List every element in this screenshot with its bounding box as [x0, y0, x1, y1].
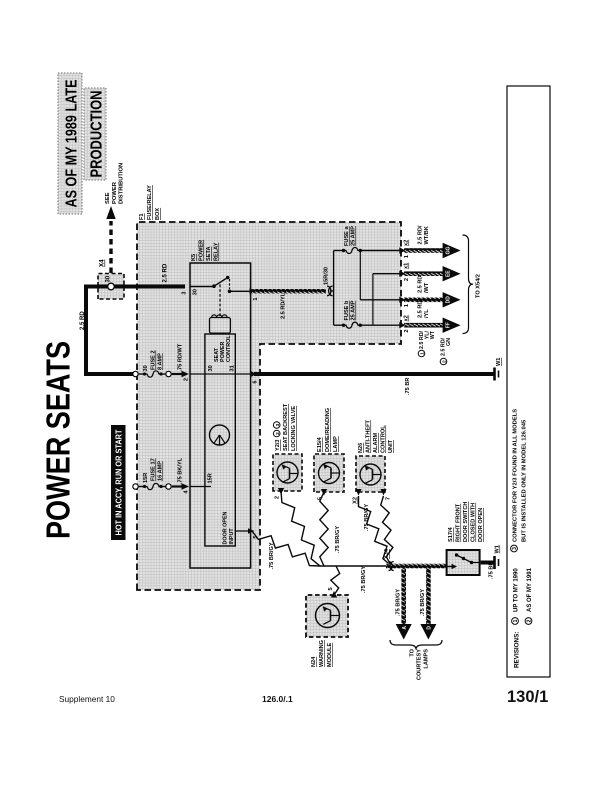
svg-text:S17/4: S17/4 — [448, 526, 454, 542]
svg-text:CONTROL: CONTROL — [381, 425, 387, 453]
svg-text:F1: F1 — [139, 213, 145, 220]
svg-text:POWER SEATS: POWER SEATS — [40, 341, 77, 539]
wire to courtesy lamp arrow D — [420, 566, 436, 640]
svg-text:AS OF MY 1991: AS OF MY 1991 — [527, 567, 533, 612]
svg-text:X2: X2 — [353, 497, 359, 504]
F1 label — [139, 185, 161, 220]
wire 2.5 RD from X4 to relay — [111, 263, 185, 286]
svg-text:PRODUCTION: PRODUCTION — [89, 91, 106, 178]
svg-text:GG: GG — [446, 247, 452, 255]
footnote 2: 2.5 RD/GN — [440, 337, 452, 364]
svg-text:x2: x2 — [404, 240, 410, 246]
fuse 17 (16 amp) feed row — [133, 457, 190, 493]
svg-text:BOX: BOX — [155, 208, 161, 220]
svg-text:2.5 RD/: 2.5 RD/ — [418, 225, 424, 244]
svg-text:1: 1 — [253, 298, 259, 301]
lamp E15/4 — [314, 454, 344, 492]
fuse 2 (8 amp) feed row — [133, 343, 190, 381]
wire 2.5 RD/YL relay output — [250, 267, 330, 319]
svg-text:2: 2 — [404, 278, 410, 281]
svg-text:.75 BR/GY: .75 BR/GY — [361, 566, 367, 593]
K5 label — [191, 240, 220, 261]
svg-text:2: 2 — [275, 496, 281, 499]
valve Y2/3 — [273, 454, 302, 491]
svg-text:3: 3 — [512, 547, 518, 550]
fuse a (25 amp) — [334, 226, 362, 254]
svg-text:FUSE/RELAY: FUSE/RELAY — [147, 185, 153, 220]
wire .75 BR/GY from E15/4 to node — [320, 492, 341, 566]
connector on 2.5 RD/YL wire — [327, 286, 334, 296]
ground W1 (left) — [495, 545, 501, 569]
svg-text:BUT IS INSTALLED ONLY IN MODEL: BUT IS INSTALLED ONLY IN MODEL 126.045 — [522, 419, 528, 542]
E15/4 terminal 5 — [318, 489, 328, 500]
ground W1 (center) — [495, 358, 503, 381]
svg-text:ANTI-THEFT: ANTI-THEFT — [366, 419, 372, 453]
door switch S17/4 — [447, 550, 480, 575]
svg-text:3: 3 — [275, 423, 281, 426]
footnote 1: 2.5 RD/YL/WT — [418, 330, 436, 357]
svg-text:N24: N24 — [311, 656, 317, 667]
wire from N26 terminal 7 to node — [381, 496, 393, 565]
title box: PRODUCTION — [84, 88, 106, 180]
node: X4 terminal circle — [108, 283, 115, 290]
output EE wire and arrow — [399, 263, 460, 293]
svg-text:.75 BR: .75 BR — [405, 378, 411, 395]
svg-text:X34: X34 — [384, 548, 390, 559]
title box: AS OF MY 1989 LATE — [58, 73, 82, 214]
svg-text:COURTESY: COURTESY — [417, 649, 423, 680]
svg-text:WARNING: WARNING — [319, 640, 325, 667]
svg-text:DOOR SWITCH: DOOR SWITCH — [463, 502, 469, 542]
svg-text:5: 5 — [328, 587, 334, 590]
output DD wire and arrow — [399, 292, 460, 318]
svg-text:AS OF MY 1989 LATE: AS OF MY 1989 LATE — [64, 79, 81, 207]
wire .75 BR from door switch to ground — [481, 562, 495, 579]
svg-text:D: D — [427, 626, 433, 630]
svg-text:FUSE b: FUSE b — [344, 300, 350, 320]
wire feed bus to fuses a and b — [333, 251, 335, 326]
svg-text:3: 3 — [182, 292, 188, 295]
wire from Y2/3 to node — [281, 491, 320, 566]
svg-text:1: 1 — [404, 304, 410, 307]
svg-text:N26: N26 — [358, 443, 364, 453]
svg-text:15R: 15R — [208, 473, 214, 483]
svg-text:8 AMP: 8 AMP — [158, 353, 164, 370]
Y2/3 terminal 2 — [275, 488, 285, 499]
footer center: 126.0/.1 — [262, 694, 293, 704]
terminal 15R inside control unit — [190, 473, 214, 486]
svg-text:UP TO MY 1990: UP TO MY 1990 — [514, 568, 520, 612]
connector X34 — [384, 548, 394, 570]
wire to courtesy lamp arrow A — [396, 566, 412, 640]
svg-text:RIGHT FRONT: RIGHT FRONT — [456, 503, 462, 542]
svg-text:MODULE: MODULE — [327, 642, 333, 667]
svg-text:2.5 RD/YL: 2.5 RD/YL — [281, 292, 287, 319]
wire .75 BR/GY from N26 X2 to node — [359, 496, 392, 566]
N24 terminal 5 — [328, 587, 337, 597]
svg-text:DISTRIBUTION: DISTRIBUTION — [119, 163, 125, 204]
svg-text:TO X54/2: TO X54/2 — [476, 274, 482, 298]
output GG wire and arrow — [399, 225, 460, 258]
svg-text:.75 BR/GY: .75 BR/GY — [269, 542, 275, 569]
wire .75 BR/GY from warning module to node — [331, 566, 367, 595]
svg-text:.75 BR/GY: .75 BR/GY — [420, 589, 426, 616]
svg-text:16 AMP: 16 AMP — [158, 461, 164, 481]
Y2/3 label — [273, 403, 297, 451]
svg-text:FUSE 17: FUSE 17 — [151, 458, 157, 481]
svg-text:LAMP: LAMP — [333, 436, 339, 452]
wire fuse a to outputs GG/DD — [360, 251, 401, 300]
svg-text:REVISIONS:: REVISIONS: — [513, 632, 520, 668]
svg-text:2: 2 — [404, 330, 410, 333]
svg-text:x1: x1 — [404, 263, 410, 269]
svg-text:DOOR OPEN: DOOR OPEN — [478, 508, 484, 542]
N26 terminals X2 and 7 — [353, 489, 392, 504]
svg-text:2.5 RD: 2.5 RD — [163, 263, 169, 282]
svg-text:7: 7 — [386, 497, 392, 500]
svg-text:A: A — [402, 626, 408, 630]
svg-text:INPUT: INPUT — [229, 528, 235, 545]
label HOT IN ACCY, RUN OR START — [111, 425, 126, 540]
svg-text:15R: 15R — [143, 473, 149, 483]
svg-text:CONNECTOR FOR Y2/3 FOUND IN AL: CONNECTOR FOR Y2/3 FOUND IN ALL MODELS — [513, 409, 519, 542]
svg-text:2.5 RD: 2.5 RD — [418, 301, 424, 318]
svg-text:.75 BR/GY: .75 BR/GY — [396, 589, 402, 616]
fuse b (25 amp) — [334, 300, 362, 328]
door open input section — [223, 511, 260, 544]
svg-text:POWER: POWER — [112, 181, 118, 204]
svg-text:DOME/READING: DOME/READING — [325, 408, 331, 452]
svg-text:SEE: SEE — [105, 192, 111, 204]
wire through control unit terminals 30/31 — [190, 365, 251, 374]
wire .75 BR to ground W1 — [250, 371, 494, 395]
svg-text:TO: TO — [410, 648, 416, 656]
wire fuse b to outputs FF/EE — [360, 274, 401, 326]
svg-text:2: 2 — [184, 378, 190, 381]
svg-text:W1: W1 — [495, 545, 501, 553]
svg-text:2: 2 — [442, 360, 447, 363]
svg-text:30: 30 — [193, 289, 199, 295]
svg-text:4: 4 — [184, 490, 190, 494]
svg-text:ALARM: ALARM — [373, 432, 379, 453]
main node wire to door switch — [320, 565, 387, 567]
S17/4 label — [448, 502, 484, 542]
svg-text:1: 1 — [420, 352, 425, 355]
svg-text:RELAY: RELAY — [214, 242, 220, 261]
svg-text:25 AMP: 25 AMP — [351, 226, 357, 246]
svg-text:1: 1 — [404, 255, 410, 258]
svg-text:DOOR OPEN: DOOR OPEN — [223, 511, 229, 544]
svg-text:x2: x2 — [404, 315, 410, 321]
svg-text:31: 31 — [230, 365, 236, 371]
svg-text:X4: X4 — [99, 259, 106, 267]
relay K5 switch contacts — [182, 276, 251, 296]
svg-text:1: 1 — [513, 619, 519, 622]
relay K5 coil — [210, 283, 231, 333]
svg-text:LOCKING VALVE: LOCKING VALVE — [291, 406, 297, 451]
svg-text:LAMPS: LAMPS — [424, 649, 430, 669]
E15/4 label — [317, 408, 339, 452]
svg-text:30: 30 — [143, 365, 149, 371]
motor symbol in control unit — [210, 425, 230, 445]
svg-text:WT: WT — [430, 330, 436, 339]
svg-text:K5: K5 — [191, 254, 197, 261]
svg-text:.75 BK/YL: .75 BK/YL — [178, 457, 184, 484]
note SEE POWER DISTRIBUTION — [105, 163, 125, 204]
svg-text:FF: FF — [446, 322, 452, 328]
wire 2.5 RD branch X4 to fuse 2 — [80, 287, 133, 375]
svg-text:6: 6 — [253, 381, 259, 384]
svg-text:2.5 RD: 2.5 RD — [80, 311, 86, 330]
svg-text:30: 30 — [106, 275, 112, 282]
N26 label — [358, 419, 394, 453]
footer left: Supplement 10 — [59, 694, 115, 704]
svg-text:EE: EE — [446, 270, 452, 277]
svg-text:15R/30: 15R/30 — [324, 267, 330, 285]
svg-text:/WT: /WT — [424, 282, 430, 293]
svg-text:SEAT BACKREST: SEAT BACKREST — [283, 403, 289, 451]
wire: dashed arrow to power distribution — [106, 206, 115, 273]
brace TO COURTESY LAMPS — [390, 640, 442, 680]
svg-text:UNIT: UNIT — [388, 439, 394, 453]
svg-text:DD: DD — [446, 296, 452, 304]
svg-text:2: 2 — [275, 432, 281, 435]
svg-text:FUSE 2: FUSE 2 — [151, 350, 157, 370]
svg-text:Y2/3: Y2/3 — [275, 439, 281, 451]
connector X4 — [98, 259, 124, 299]
wire .75 BR/GY from control unit to node — [252, 531, 320, 570]
svg-text:GN: GN — [446, 338, 452, 346]
svg-text:FUSE a: FUSE a — [344, 226, 350, 246]
control unit N26 — [356, 456, 385, 492]
warning module N24 — [306, 595, 348, 637]
output FF wire and arrow — [399, 315, 460, 333]
svg-text:30: 30 — [208, 365, 214, 371]
svg-text:2: 2 — [527, 619, 533, 622]
svg-text:CLOSED WITH: CLOSED WITH — [471, 503, 477, 542]
relay K5 box — [190, 263, 251, 568]
svg-text:W1: W1 — [496, 358, 502, 366]
brace TO X54/2 — [463, 235, 482, 334]
svg-text:POWER: POWER — [199, 240, 205, 261]
footer right: 130/1 — [507, 688, 548, 707]
revisions box — [507, 86, 550, 677]
svg-text:CONTROL: CONTROL — [226, 335, 232, 362]
svg-text:.75 BR/GY: .75 BR/GY — [364, 504, 370, 531]
fuse/relay box F1 — [137, 222, 401, 590]
svg-text:SETA: SETA — [206, 246, 212, 261]
svg-text:.75 BR/GY: .75 BR/GY — [335, 526, 341, 553]
svg-text:WT/BK: WT/BK — [424, 226, 430, 244]
N24 label — [311, 640, 333, 667]
svg-text:25 AMP: 25 AMP — [351, 300, 357, 320]
svg-text:E15/4: E15/4 — [317, 436, 323, 452]
svg-text:2.5 RD: 2.5 RD — [418, 276, 424, 293]
svg-text:HOT IN ACCY, RUN OR START: HOT IN ACCY, RUN OR START — [114, 429, 123, 535]
svg-text:/YL: /YL — [424, 309, 430, 318]
svg-text:.75 RD/WT: .75 RD/WT — [178, 343, 184, 371]
seat power control unit U1 — [205, 334, 235, 546]
